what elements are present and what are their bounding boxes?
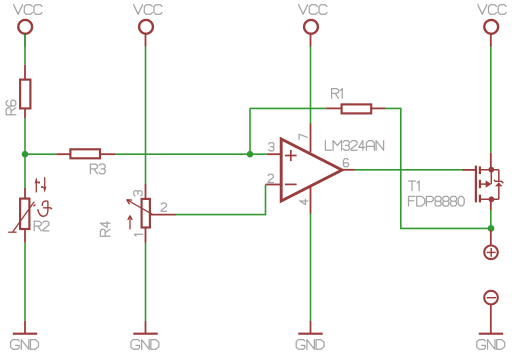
GND3 label	[296, 340, 324, 350]
wire VCC4 to T1 drain	[490, 47, 492, 153]
potentiometer R4 wiper pin 2	[151, 214, 176, 216]
resistor R6 pin 1 (top)	[24, 65, 26, 79]
T1 channel segment middle	[479, 180, 481, 188]
T1 body diode rail top	[498, 170, 500, 182]
T1 channel segment top	[479, 166, 481, 174]
VCC1 label	[14, 5, 42, 15]
resistor R1 pin 1	[326, 107, 341, 109]
op-amp U1 pin 4	[310, 187, 312, 214]
op-amp U1 pin 3 label	[269, 143, 274, 151]
GND4 label	[477, 340, 505, 350]
transistor T1 value label	[409, 196, 465, 206]
T1 body diode cathode	[494, 180, 504, 183]
resistor R6 label	[6, 100, 16, 115]
wire node to R2	[24, 154, 26, 188]
T1 drain dot	[488, 167, 494, 173]
resistor R3 pin 2	[101, 153, 115, 155]
op-amp U1 pin 6 label	[343, 159, 348, 167]
T1 body arrow	[486, 180, 492, 187]
op-amp U1 pin 4 label	[300, 199, 308, 204]
thermistor R2 diagonal	[13, 202, 34, 232]
op-amp U1 pin 7	[310, 124, 312, 153]
VCC3 label	[299, 5, 327, 15]
wire R4 wiper to op-amp pin 2	[176, 185, 266, 215]
T1 channel segment bottom	[479, 195, 481, 203]
op-amp U1 pin 2 label	[268, 174, 273, 182]
T1 body diode rail bottom	[498, 186, 500, 199]
ground GND1	[13, 321, 37, 334]
potentiometer R4 pin 3 (top)	[145, 184, 147, 198]
T1 body stub	[481, 183, 486, 185]
VCC4 pin stub	[490, 33, 492, 46]
T1 source dot	[489, 196, 495, 202]
op-amp U1 label	[325, 141, 383, 151]
wire T1 source to output node	[490, 210, 492, 228]
resistor R1 pin 2	[372, 107, 385, 109]
T1 body diode anode triangle	[495, 182, 503, 186]
resistor R3 label	[90, 164, 105, 174]
thermistor R2 arrow up	[35, 177, 41, 192]
thermistor R2 theta symbol	[33, 201, 52, 216]
transistor T1	[463, 153, 504, 210]
terminal + plus sign	[487, 248, 496, 257]
thermistor R2 arrow down	[41, 177, 47, 193]
thermistor R2 diagonal foot	[8, 231, 16, 233]
potentiometer R4 wiper arrow	[127, 200, 153, 215]
thermistor R2 label	[34, 221, 49, 231]
wire R6 to node	[24, 118, 26, 154]
T1 source pin	[490, 199, 492, 210]
node junction (source / + terminal)	[488, 225, 495, 232]
potentiometer R4 label	[100, 222, 110, 237]
GND1 label	[11, 340, 39, 350]
VCC2 pin stub	[145, 33, 147, 46]
terminal - circle	[484, 291, 498, 305]
thermistor R2	[20, 199, 29, 229]
op-amp U1 pin 3	[267, 153, 281, 155]
wire R4 to GND2	[145, 243, 147, 321]
wire VCC3 to op-amp pin 7	[310, 47, 312, 124]
resistor R3	[70, 149, 100, 158]
T1 gate bar	[475, 166, 477, 203]
GND2 label	[131, 340, 159, 350]
transistor T1 label	[409, 181, 420, 191]
resistor R3 pin 1	[56, 153, 70, 155]
VCC3 pin stub	[310, 33, 312, 46]
node junction (divider)	[22, 151, 29, 158]
wire R3 to op-amp pin 3 node	[115, 153, 250, 155]
terminal - minus sign	[487, 297, 496, 299]
T1 drain pin	[490, 153, 492, 170]
wire VCC1 stub (pin overlapped by net, dark green)	[24, 33, 26, 46]
op-amp U1 pin 2	[266, 184, 282, 186]
T1 gate pin	[463, 169, 476, 171]
supply VCC2	[139, 20, 153, 34]
wire VCC2 to R4	[145, 47, 147, 185]
supply VCC3	[304, 20, 318, 34]
potentiometer R4 pin 1 (bottom)	[145, 228, 147, 243]
resistor R1 label	[332, 89, 343, 99]
thermistor R2 pin 1 (top)	[24, 188, 26, 198]
potentiometer R4 pin 3 label	[134, 191, 142, 196]
wire feedback to R1	[250, 107, 326, 109]
thermistor R2 pin 2 (bottom)	[24, 229, 26, 243]
wire feedback up from + node	[249, 108, 251, 154]
VCC4 label	[478, 5, 506, 15]
T1 body vertical	[490, 170, 492, 185]
wire R1 to source node	[385, 108, 491, 228]
op-amp U1 triangle	[281, 139, 342, 201]
potentiometer R4 pin 2 label	[161, 203, 166, 211]
potentiometer R4 pin 1 label	[134, 234, 142, 236]
wire node to op-amp pin 3	[250, 153, 267, 155]
op-amp U1 pin 7 label	[299, 134, 307, 139]
wire VCC1 to R6	[24, 47, 26, 65]
wire R2 to GND1	[24, 243, 26, 321]
ground GND3	[298, 321, 322, 334]
terminal - pin stub to GND4	[490, 305, 492, 333]
potentiometer R4	[142, 199, 150, 228]
terminal + circle	[484, 246, 498, 260]
resistor R6	[20, 80, 30, 109]
T1 drain link	[481, 169, 499, 171]
op-amp U1 minus symbol	[285, 183, 297, 185]
op-amp U1 plus symbol	[285, 150, 297, 161]
T1 source link	[481, 198, 499, 200]
ground GND4	[479, 333, 503, 335]
wire output to T1 gate	[355, 169, 463, 171]
wire node to R3	[25, 153, 56, 155]
resistor R1	[342, 104, 372, 113]
node junction (+ input)	[247, 151, 254, 158]
supply VCC4	[484, 20, 498, 34]
op-amp U1 pin 6 (output)	[342, 169, 355, 171]
supply VCC1	[18, 20, 32, 34]
potentiometer R4 adjust arrow	[128, 216, 132, 230]
ground GND2	[133, 321, 157, 334]
wire op-amp pin 4 to GND3	[310, 214, 312, 321]
resistor R6 pin 2 (bottom)	[24, 110, 26, 119]
VCC2 label	[134, 5, 162, 15]
terminal + pin stub	[490, 230, 492, 245]
